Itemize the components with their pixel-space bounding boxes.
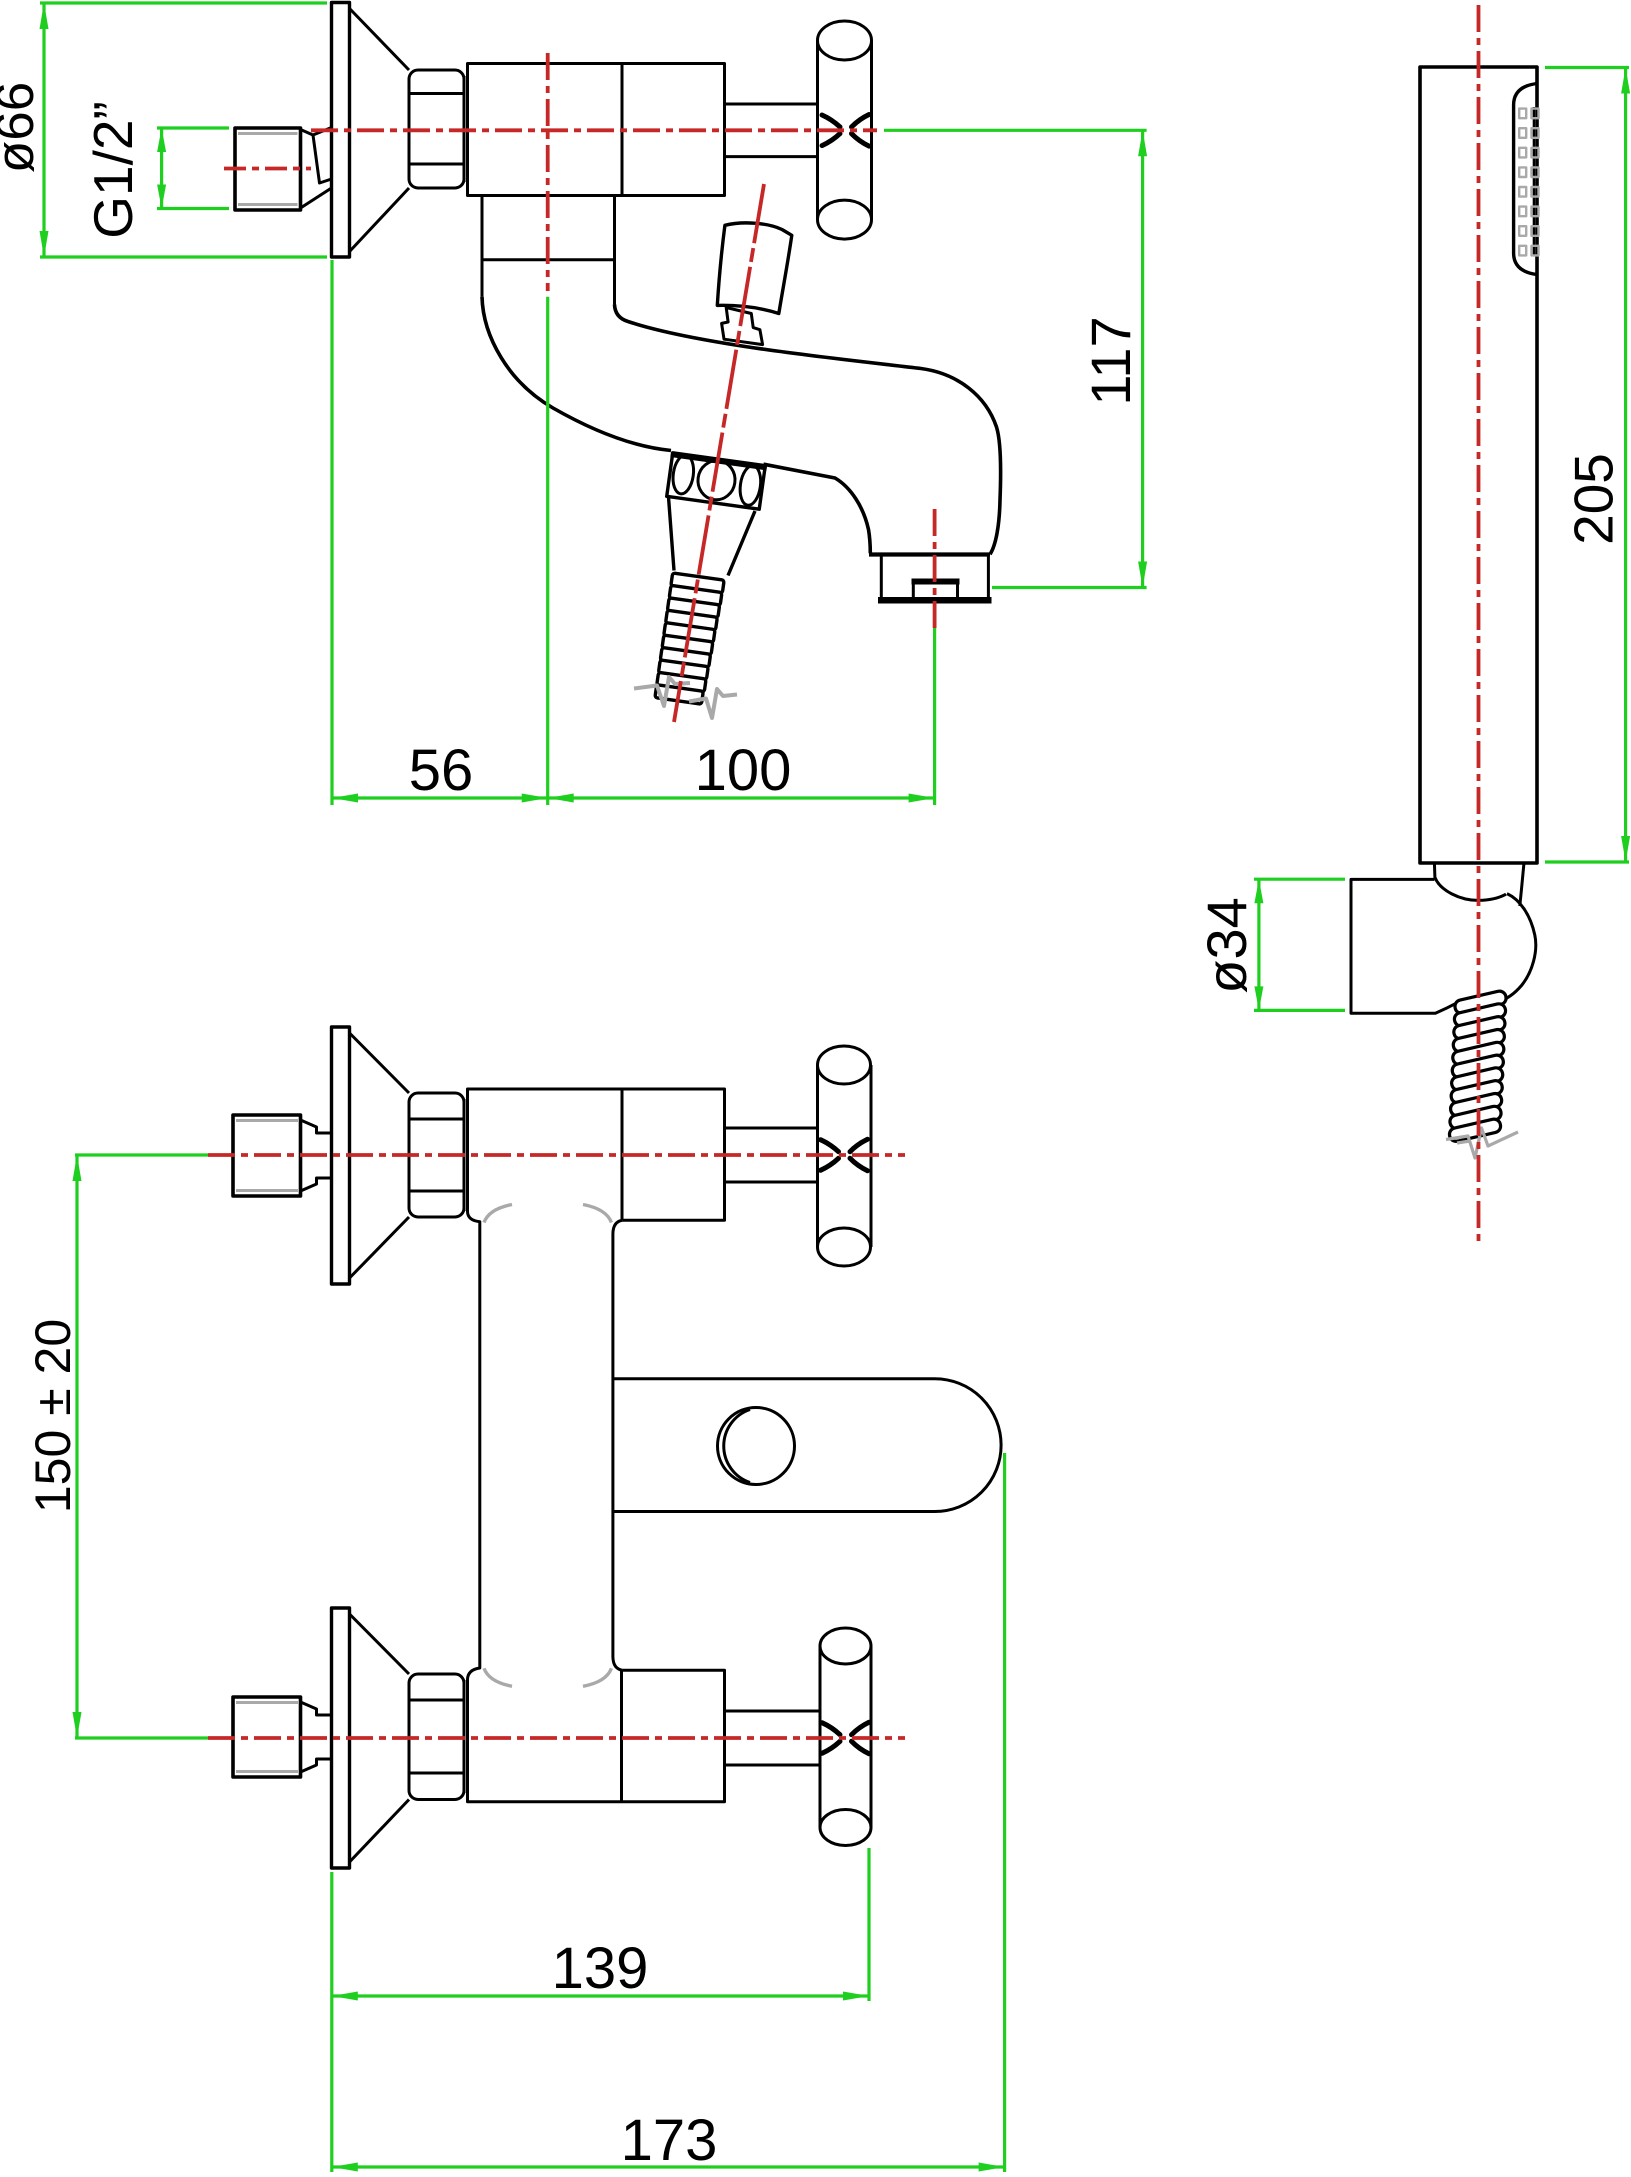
center line: spout vertical axis bbox=[546, 53, 550, 291]
hose break mark bbox=[634, 677, 737, 718]
svg-text:117: 117 bbox=[1079, 316, 1142, 405]
center line: shower hose axis (diagonal) bbox=[674, 184, 764, 722]
hose upper tube bbox=[669, 497, 756, 576]
mixer oval handle bbox=[613, 1379, 1001, 1512]
eccentric taper bbox=[301, 128, 332, 209]
svg-text:150 ± 20: 150 ± 20 bbox=[25, 1319, 81, 1513]
upper handle cross mark bbox=[821, 1139, 868, 1171]
svg-text:205: 205 bbox=[1563, 453, 1625, 545]
extension line outlet axis bbox=[933, 628, 936, 805]
svg-text:56: 56 bbox=[409, 738, 474, 803]
wall flange plate (side view) bbox=[332, 3, 350, 258]
upper flange cone bbox=[350, 1033, 410, 1278]
flange cone bbox=[350, 9, 409, 251]
upper wall flange plate (front view) bbox=[332, 1027, 350, 1284]
hand shower wand bbox=[1420, 67, 1537, 863]
svg-text:173: 173 bbox=[621, 2108, 718, 2173]
valve under-chamber bbox=[482, 196, 615, 305]
handle cross mark bbox=[822, 115, 869, 147]
hose ribs bbox=[655, 573, 724, 704]
arrows 150+-20 bbox=[73, 1155, 82, 1738]
svg-text:ø34: ø34 bbox=[1195, 897, 1258, 994]
arrows o34 bbox=[1254, 879, 1263, 1010]
svg-text:100: 100 bbox=[695, 738, 792, 803]
dim G1/2 ticks bbox=[157, 128, 229, 209]
lower wall flange plate bbox=[332, 1608, 350, 1868]
lower fitting taper bbox=[301, 1702, 332, 1772]
upper valve body block bbox=[468, 1089, 725, 1220]
spout outer edge (top/right) bbox=[615, 305, 1001, 555]
extension line spout axis bbox=[546, 297, 549, 805]
arrows 100 bbox=[548, 794, 935, 803]
lower union hex nut bbox=[409, 1674, 464, 1800]
diverter knob bbox=[717, 223, 792, 314]
lower G1/2 inlet fitting bbox=[233, 1697, 301, 1777]
shower holder bracket bbox=[1351, 879, 1458, 1013]
extension line lower flange bbox=[330, 1872, 333, 2172]
arrows o66 bbox=[40, 3, 49, 257]
hose break mark bbox=[1446, 1128, 1518, 1158]
extension line oval handle end bbox=[1003, 1453, 1006, 2172]
center line: hand shower axis bbox=[1477, 5, 1481, 1242]
column fillet tangent arcs (gray) bbox=[484, 1205, 611, 1687]
union hex nut bbox=[409, 70, 464, 188]
dim o34 ticks bbox=[1254, 879, 1345, 1010]
diverter knob neck bbox=[722, 308, 763, 345]
center line: lower inlet axis (front view) bbox=[208, 1736, 905, 1740]
center line: eccentric inlet axis (side view) bbox=[224, 167, 311, 171]
arrows 56 bbox=[332, 794, 548, 803]
upper fitting taper bbox=[301, 1120, 332, 1191]
upper handle stem bbox=[725, 1128, 818, 1182]
shower hose coil bbox=[1448, 990, 1507, 1143]
dim o66 line bbox=[42, 3, 45, 257]
wand lower connector bbox=[1434, 863, 1524, 906]
arrows 205 bbox=[1621, 68, 1630, 863]
dim 150+-20 line bbox=[75, 1155, 78, 1738]
svg-text:ø66: ø66 bbox=[0, 82, 45, 173]
arrows 139 bbox=[332, 1992, 869, 2001]
dim o34 line bbox=[1257, 879, 1260, 1010]
dim 56/100 line bbox=[332, 796, 935, 799]
lower flange cone bbox=[350, 1614, 410, 1862]
arrows 173 bbox=[332, 2163, 1005, 2172]
spray face inset bbox=[1514, 84, 1537, 275]
extension line at wall (56) bbox=[330, 260, 333, 805]
arrows 117 bbox=[1138, 130, 1147, 587]
G1/2 eccentric inlet fitting bbox=[235, 128, 301, 210]
spout inner edge (bottom/left) bbox=[482, 297, 870, 554]
dim 205 line bbox=[1624, 68, 1627, 863]
outlet block bbox=[881, 555, 988, 597]
upper G1/2 inlet fitting bbox=[233, 1115, 301, 1196]
dim o66 ticks bbox=[40, 3, 327, 257]
valve body block bbox=[468, 64, 725, 196]
handle button bbox=[718, 1408, 795, 1485]
dim 117 ticks bbox=[884, 130, 1147, 587]
spray nozzles bbox=[1519, 109, 1538, 256]
center line: outlet axis bbox=[933, 509, 937, 628]
svg-text:139: 139 bbox=[552, 1936, 649, 2001]
ball joint bbox=[1499, 894, 1536, 1002]
upper cross handle cylinder bbox=[818, 1065, 872, 1247]
handle button double arc bbox=[724, 1410, 750, 1483]
central column bbox=[468, 1212, 623, 1680]
dim 173 line bbox=[332, 2165, 1005, 2168]
center line: upper inlet axis (front view) bbox=[208, 1153, 905, 1157]
center line: faucet body axis (side view) bbox=[311, 128, 877, 132]
lower valve body block bbox=[468, 1670, 725, 1802]
lower handle cross mark bbox=[822, 1722, 869, 1754]
aerator bbox=[913, 584, 957, 597]
hose coupling nut bbox=[665, 453, 767, 510]
dim 139 line bbox=[332, 1994, 869, 1997]
extension line lower handle bbox=[867, 1848, 870, 2001]
handle stem bbox=[725, 104, 818, 157]
spout outlet lip bbox=[869, 552, 990, 556]
dim 150+-20 ticks bbox=[75, 1155, 208, 1738]
lower cross handle cylinder bbox=[820, 1646, 871, 1828]
upper union hex nut bbox=[409, 1093, 464, 1217]
lower handle stem bbox=[725, 1711, 821, 1765]
svg-text:G1/2”: G1/2” bbox=[82, 101, 144, 239]
cross handle cylinder bbox=[818, 41, 872, 220]
dim 205 ticks bbox=[1545, 68, 1629, 863]
dim G1/2 line bbox=[160, 128, 163, 209]
arrows G1/2 bbox=[157, 128, 166, 209]
dim 117 line bbox=[1141, 130, 1144, 587]
